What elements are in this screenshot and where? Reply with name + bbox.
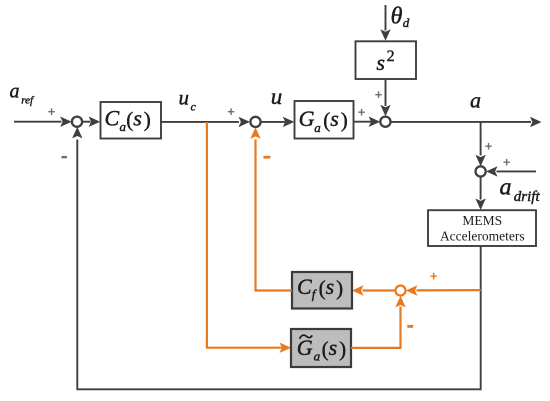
svg-text:ref: ref [21, 94, 35, 106]
svg-text:G: G [299, 106, 315, 131]
arrowhead into S1 bottom [72, 127, 82, 138]
svg-text:a: a [500, 174, 512, 200]
wire orange from MEMS feedback line to S5 [417, 289, 481, 291]
svg-text:G: G [297, 335, 313, 360]
arrowhead into Ca [89, 117, 101, 127]
arrowhead into S2 bottom [250, 127, 260, 139]
arrowhead into MEMS [475, 199, 485, 211]
arrowhead into Gta [280, 343, 292, 353]
svg-text:+: + [227, 104, 235, 119]
svg-text:a: a [10, 81, 20, 103]
block MEMS Accelerometers [428, 210, 536, 246]
svg-text:a: a [470, 88, 481, 113]
wire Ca to S2 [161, 121, 239, 123]
arrowhead into S3 [369, 117, 381, 127]
summing junction S5 orange [396, 286, 406, 296]
svg-text:(: ( [319, 276, 326, 300]
svg-text:): ) [336, 276, 343, 300]
svg-text:+: + [48, 104, 56, 119]
minus sign at S1 bottom [62, 156, 67, 158]
summing junction S1 [72, 117, 82, 127]
svg-text:+: + [485, 139, 493, 154]
block s^2 [356, 41, 417, 79]
arrowhead into summing junction S1 [60, 117, 71, 127]
svg-text:a: a [314, 348, 321, 363]
svg-text:drift: drift [514, 189, 541, 205]
svg-text:(: ( [323, 108, 330, 132]
block Ca(s) [101, 102, 162, 139]
svg-text:+: + [503, 155, 511, 170]
svg-text:2: 2 [387, 48, 395, 65]
svg-text:s: s [376, 50, 385, 75]
arrowhead into s2 block [380, 29, 390, 41]
wire theta_d input [385, 5, 387, 31]
svg-text:(: ( [126, 107, 133, 131]
svg-text:+: + [375, 87, 383, 102]
svg-text:C: C [297, 274, 312, 299]
arrowhead into S2 [239, 117, 251, 127]
arrowhead into Ga [283, 117, 295, 127]
svg-text:(: ( [322, 337, 329, 361]
wire a branch down [480, 122, 482, 156]
svg-text:s: s [329, 335, 338, 360]
arrowhead into S3 top [380, 105, 390, 117]
arrowhead output [530, 117, 542, 127]
svg-text:C: C [105, 105, 120, 130]
svg-text:θ: θ [391, 3, 403, 29]
svg-text:s: s [326, 274, 335, 299]
wire a_ref input [14, 121, 62, 123]
summing junction S4 [476, 166, 486, 176]
svg-text:): ) [341, 108, 348, 132]
svg-text:u: u [179, 86, 190, 110]
arrowhead into Cf right [352, 285, 364, 295]
wire orange branch from uc node down and right to Gta [207, 122, 282, 348]
arrowhead into S4 top [475, 155, 485, 167]
svg-text:Accelerometers: Accelerometers [440, 229, 525, 244]
svg-text:s: s [133, 105, 142, 130]
arrowhead into S4 right [486, 166, 498, 176]
svg-text:d: d [403, 15, 410, 30]
wire S1 to Ca [82, 121, 90, 123]
wire MEMS down, bottom feedback, up into S1 [77, 140, 480, 390]
wire a_drift input [497, 170, 537, 172]
wire S3 to output a [391, 121, 531, 123]
arrowhead into S5 bottom [395, 296, 405, 308]
wire s^2 to S3 [385, 79, 387, 106]
block Cf(s) gray [292, 272, 352, 309]
arrowhead into S5 right [406, 285, 418, 295]
wire Gta output right and up to S5 [351, 307, 401, 348]
svg-text:s: s [330, 106, 339, 131]
svg-text:): ) [144, 107, 151, 131]
svg-text:+: + [430, 268, 438, 283]
wire S5 to Cf [363, 289, 396, 291]
minus sign orange at S2 bottom [263, 156, 270, 159]
svg-text:u: u [271, 84, 283, 109]
svg-text:): ) [339, 337, 346, 361]
block Gta(s) gray [291, 329, 351, 367]
svg-text:MEMS: MEMS [462, 213, 502, 228]
wire S4 to MEMS [480, 177, 482, 200]
svg-text:c: c [191, 99, 197, 113]
wire Ga to S3 [354, 121, 372, 123]
summing junction S3 [380, 117, 390, 127]
wire S2 to Ga [261, 121, 285, 123]
summing junction S2 [250, 117, 260, 127]
svg-text:a: a [314, 120, 321, 135]
block Ga(s) [295, 101, 354, 139]
wire Cf output left and up into S2 [256, 140, 293, 291]
minus sign orange below S5 [407, 325, 413, 328]
svg-text:+: + [358, 104, 366, 119]
